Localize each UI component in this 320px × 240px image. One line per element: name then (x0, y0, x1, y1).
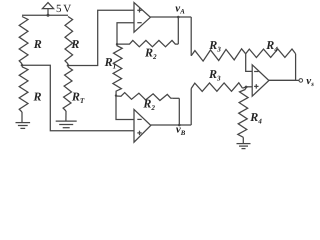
ground left bridge leg (16, 123, 31, 129)
svg-text:R3: R3 (208, 67, 221, 83)
label R3 (bottom) (208, 67, 221, 83)
ground right bridge leg (56, 121, 77, 128)
ground under R4 (237, 144, 251, 149)
resistor R1 (113, 44, 122, 95)
resistor R4 (U3 feedback) (246, 49, 296, 58)
svg-text:RT: RT (71, 90, 85, 106)
resistor R2 (U1 feedback) (117, 40, 178, 46)
wire U3 output to terminal (269, 79, 299, 81)
wire vA down to R3 top (190, 17, 192, 56)
resistor R (bridge bottom-left) (19, 67, 28, 122)
label vB (176, 124, 186, 137)
svg-text:R1: R1 (104, 55, 117, 71)
svg-text:R: R (70, 37, 79, 51)
junction dot at 5V rail (47, 14, 50, 17)
svg-text:R2: R2 (142, 96, 155, 112)
node vA (177, 16, 180, 19)
op-amp U2 (134, 109, 151, 142)
resistor R3 (bottom) (191, 83, 246, 92)
svg-text:5: 5 (56, 3, 62, 15)
label vA (175, 2, 185, 15)
thermistor RT (63, 67, 72, 121)
terminal vs (299, 79, 303, 83)
label R4 (top) (265, 38, 278, 54)
svg-text:vs: vs (306, 75, 314, 88)
svg-text:vA: vA (175, 2, 185, 15)
svg-text:R2: R2 (144, 46, 157, 62)
label R2 (top) (144, 46, 157, 62)
label R (bottom-left) (33, 90, 42, 104)
label R (top-right) (70, 37, 79, 51)
svg-text:R: R (33, 37, 42, 51)
5V supply symbol (42, 3, 53, 16)
node vB (178, 124, 181, 127)
resistor R (bridge top-right) (65, 17, 73, 66)
wire U1 output (150, 16, 191, 18)
label R3 (top) (208, 38, 221, 54)
svg-text:R4: R4 (249, 110, 262, 126)
label R (top-left) (33, 37, 42, 51)
op-amp U3 (252, 65, 269, 96)
node U3 + input (245, 86, 248, 89)
wire top rail (22, 14, 68, 16)
wire R2 top to vA node (177, 17, 179, 44)
resistor R2 (U2 feedback) (116, 93, 179, 101)
junction dot A (116, 43, 118, 45)
node bridge left midpoint (21, 64, 24, 67)
wire R4 to U3 output (269, 54, 296, 81)
label R2 (bottom) (142, 96, 155, 112)
wire U2 output (151, 124, 191, 126)
wire R2 bottom to vB node (178, 98, 180, 125)
wire U1 - input to junction A (117, 23, 134, 45)
resistor R4 (to ground) (238, 87, 248, 143)
label RT (71, 90, 85, 106)
svg-text:V: V (63, 3, 71, 15)
wire + node into U3 (246, 86, 252, 88)
label vs (306, 75, 314, 88)
resistor R3 (top) (191, 49, 246, 61)
node bridge right midpoint (67, 64, 70, 67)
resistor R (bridge top-left) (19, 17, 28, 66)
svg-text:R4: R4 (265, 38, 278, 54)
wire bridge right node to U1 + input (68, 10, 134, 65)
label R4 (bottom) (249, 110, 262, 126)
wire bridge left node to U2 + input (22, 65, 134, 131)
wire R3/R4 junction to U3 - input (246, 54, 253, 72)
svg-text:R: R (33, 90, 42, 104)
svg-text:R3: R3 (208, 38, 221, 54)
op-amp U1 (134, 3, 150, 33)
junction dot B (115, 94, 117, 96)
wire U2 - input to junction B (116, 96, 134, 120)
wire vB up to R3 bottom (190, 89, 192, 126)
label R1 (104, 55, 117, 71)
label 5 V (56, 3, 71, 15)
